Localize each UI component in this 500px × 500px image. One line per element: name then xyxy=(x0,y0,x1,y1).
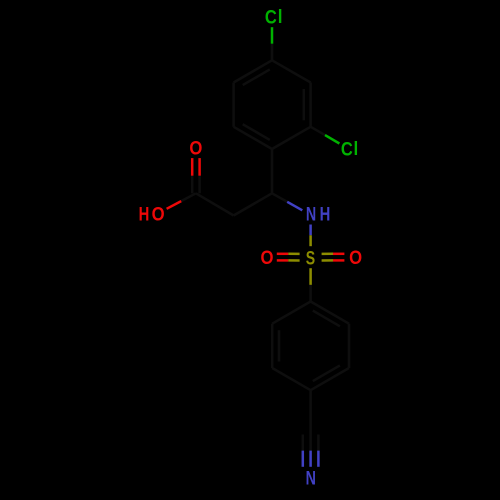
bond CH-CH2 xyxy=(234,193,272,215)
ring2 edge C1-C2 double inner xyxy=(313,311,340,327)
ring1 edge C3-C4 double outer xyxy=(234,60,272,82)
ring1 edge C3-C4 double inner xyxy=(243,69,270,85)
svg-text:O: O xyxy=(349,247,362,268)
bond C-OH hydroxyl xyxy=(181,193,196,201)
triple bond C#N nitrile xyxy=(317,435,320,451)
svg-text:l: l xyxy=(278,6,283,27)
bond C6-Cl ring1 (ortho chloro) xyxy=(311,127,325,135)
svg-text:C: C xyxy=(265,6,277,27)
svg-text:N: N xyxy=(306,203,316,224)
bond ring1 C1 - CH methine xyxy=(271,149,274,193)
ring2 edge C2-C3 xyxy=(348,324,351,368)
svg-text:O: O xyxy=(189,137,202,158)
bond ring2 C4 - nitrile C xyxy=(309,390,312,434)
bond S - ring2 C1 xyxy=(309,268,312,285)
ring2 edge C4-C5 xyxy=(272,368,310,390)
svg-text:S: S xyxy=(306,247,315,269)
svg-text:H: H xyxy=(320,204,331,225)
double bond S=O right xyxy=(322,253,333,256)
svg-text:C: C xyxy=(341,138,353,159)
svg-text:H: H xyxy=(139,204,150,225)
ring1 edge C6-C1 xyxy=(272,127,311,149)
double bond S=O left xyxy=(288,259,299,262)
bond Cl-C4 ring1 (top chloro) xyxy=(271,27,274,44)
bond CH2-COOH carbon xyxy=(196,193,234,215)
svg-text:O: O xyxy=(261,247,274,268)
svg-text:O: O xyxy=(152,204,165,225)
ring1 edge C4-C5 xyxy=(272,60,311,82)
svg-text:l: l xyxy=(354,138,359,159)
ring2 edge C5-C6 double outer xyxy=(271,324,274,368)
ring1 edge C1-C2 double outer xyxy=(234,127,272,149)
bond CH-N (to sulfonamide NH) xyxy=(272,193,287,202)
double bond C=O carbonyl xyxy=(191,176,194,194)
ring2 edge C5-C6 double inner xyxy=(278,330,281,361)
ring2 edge C3-C4 double inner xyxy=(313,365,340,381)
ring2 edge C3-C4 double outer xyxy=(311,368,349,390)
ring1 edge C1-C2 double inner xyxy=(243,124,270,140)
ring2 edge C6-C1 xyxy=(272,302,310,324)
ring1 edge C2-C3 xyxy=(232,83,235,127)
ring1 edge C5-C6 double inner xyxy=(303,89,306,120)
ring1 edge C5-C6 double outer xyxy=(309,83,312,127)
bond N-S sulfonamide xyxy=(309,225,312,236)
svg-text:N: N xyxy=(306,468,316,489)
ring2 edge C1-C2 double outer xyxy=(311,302,349,324)
